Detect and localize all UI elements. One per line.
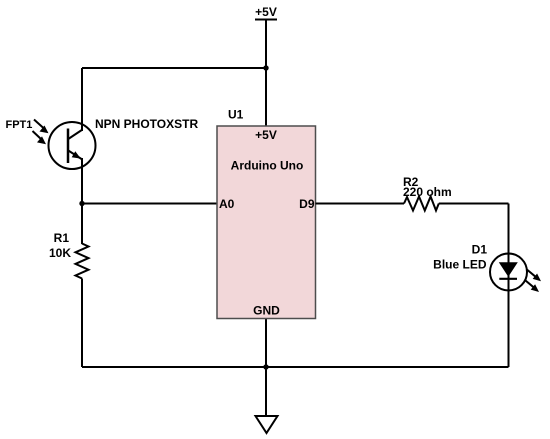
svg-text:GND: GND [253, 304, 280, 318]
junction dot at A0 node [79, 201, 84, 206]
svg-text:+5V: +5V [255, 128, 277, 142]
wire: down through LED to ground rail [508, 204, 510, 368]
wire: emitter down to A0 node [81, 158, 83, 244]
LED anode triangle [499, 262, 518, 277]
FPT1 emitter lead [68, 150, 82, 159]
svg-text:220 ohm: 220 ohm [403, 185, 452, 199]
wire: U1 GND pin down to ground symbol [265, 319, 267, 417]
wire: +5V symbol down to U1 pin +5V [265, 20, 267, 127]
junction dot at +5V rail [263, 65, 268, 70]
resistor R1 zigzag [76, 244, 89, 279]
svg-text:10K: 10K [49, 246, 71, 260]
resistor R2 zigzag [404, 197, 439, 211]
svg-text:A0: A0 [219, 197, 235, 211]
svg-text:Arduino Uno: Arduino Uno [231, 159, 304, 173]
svg-text:R1: R1 [54, 231, 70, 245]
FPT1 emitter arrowhead [72, 151, 81, 158]
power symbol +5V bar [255, 19, 277, 21]
Arduino Uno U1 box [217, 126, 316, 319]
svg-text:NPN PHOTOXSTR: NPN PHOTOXSTR [95, 117, 198, 131]
light arrow 1 into FPT1 [34, 120, 44, 129]
svg-text:+5V: +5V [255, 5, 277, 19]
svg-text:FPT1: FPT1 [6, 119, 33, 131]
svg-text:Blue LED: Blue LED [433, 258, 487, 272]
LED light arrow 1 [527, 270, 536, 277]
wire: A0 node to U1 pin A0 [82, 203, 217, 205]
junction dot at ground rail [263, 364, 268, 369]
ground symbol [256, 416, 278, 433]
wire: R1 to ground rail [81, 279, 83, 368]
wire: down to phototransistor collector [81, 68, 83, 131]
FPT1 base bar [67, 129, 70, 164]
FPT1 collector lead [68, 130, 82, 140]
wire: R2 to LED corner [439, 203, 509, 205]
wire: +5V rail horizontal to collector branch [82, 67, 266, 69]
light arrow 2 into FPT1 [33, 131, 42, 140]
svg-text:U1: U1 [228, 108, 244, 122]
wire inside LED circle [508, 253, 510, 291]
ground rail wire [82, 366, 509, 368]
LED D1 body circle [490, 254, 527, 291]
svg-text:D9: D9 [299, 197, 315, 211]
transistor FPT1 body circle [49, 122, 96, 169]
LED light arrow 2 [526, 281, 534, 288]
wire: U1 pin D9 to R2 [316, 203, 405, 205]
svg-text:D1: D1 [472, 243, 488, 257]
LED cathode bar [499, 278, 517, 280]
